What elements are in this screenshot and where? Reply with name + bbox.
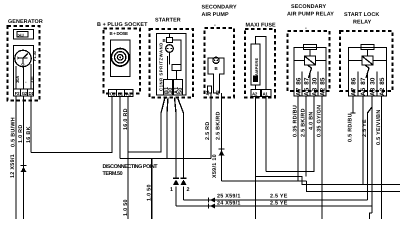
svg-text:1: 1 (170, 187, 173, 193)
svg-text:A5: A5 (360, 87, 367, 96)
svg-text:A3: A3 (370, 87, 377, 96)
svg-text:30: 30 (370, 77, 377, 85)
svg-text:STARTER: STARTER (155, 18, 181, 24)
air pump A1 leg (208, 86, 212, 93)
voltage regulator box (14, 30, 34, 40)
wire generator B+ 16 BK (30, 96, 32, 153)
svg-text:2.5 YE: 2.5 YE (270, 200, 288, 206)
svg-text:16 BK: 16 BK (26, 126, 32, 143)
svg-text:0.35 RD/BU: 0.35 RD/BU (293, 105, 299, 137)
relay coil (304, 45, 317, 50)
svg-text:AMPERE: AMPERE (254, 57, 259, 76)
starter terminal 30 funnel wires (161, 98, 165, 114)
generator dashed box (8, 26, 40, 101)
svg-text:2.5 YE: 2.5 YE (270, 194, 288, 200)
terminal 50 wire to bottom (151, 159, 153, 220)
svg-text:GENERATOR: GENERATOR (8, 19, 43, 25)
wire maxi fuse A1 down (265, 97, 267, 172)
svg-text:87: 87 (303, 77, 310, 85)
starter motor circle (166, 45, 174, 53)
run to right edge lower (307, 181, 400, 192)
wire B1 down to horizontal run (119, 97, 121, 159)
starter solenoid (169, 34, 171, 38)
relay crossbar (349, 60, 387, 62)
horizontal run B1 to air pump A1 (120, 158, 211, 160)
wire A1 branch to starter 30 (128, 113, 161, 152)
svg-text:X59/1 10: X59/1 10 (212, 154, 218, 178)
svg-text:50: 50 (178, 87, 184, 94)
svg-text:1.0 50: 1.0 50 (146, 184, 152, 201)
wire air relay 86 down (297, 96, 299, 182)
fuse body (251, 44, 260, 85)
svg-text:85: 85 (379, 77, 386, 85)
svg-text:B1: B1 (118, 92, 124, 97)
svg-text:2.5 BK/RD: 2.5 BK/RD (301, 108, 307, 137)
starter terminal cells (164, 80, 173, 96)
wire air relay 87 down (305, 96, 307, 177)
svg-text:G2: G2 (22, 91, 28, 96)
run maxi A1 to air relay 30 (266, 96, 314, 172)
svg-text:2: 2 (187, 187, 190, 193)
generator terminal row (14, 89, 34, 96)
wire maxi fuse A2 down to bottom edge (255, 97, 257, 220)
wire air relay 85 to bottom edge (321, 96, 323, 219)
svg-text:START LOCK: START LOCK (344, 12, 379, 18)
svg-text:0.5 YE/VI/BN: 0.5 YE/VI/BN (376, 109, 382, 145)
wire generator terminal 2 to bottom edge (23, 96, 25, 219)
relay crossbar (294, 60, 326, 62)
wire air pump A2 down (221, 93, 223, 181)
svg-text:A2: A2 (252, 91, 258, 96)
fuse loop wire (256, 37, 267, 90)
wire air pump A1 down to horizontal run (210, 93, 212, 159)
svg-text:2.5 YE: 2.5 YE (362, 119, 368, 137)
svg-text:C1: C1 (110, 92, 116, 97)
generator symbol circle (15, 50, 31, 66)
wire start relay 30 down to bottom edge (371, 96, 373, 213)
svg-text:AIR PUMP RELAY: AIR PUMP RELAY (287, 12, 334, 18)
starter internal wiring (173, 40, 182, 65)
svg-text:24 X59/1: 24 X59/1 (217, 200, 241, 206)
svg-text:MAXI FUSE: MAXI FUSE (246, 23, 277, 29)
wire A2 runs right (222, 180, 307, 182)
wire generator B+ to B+ socket C1 (31, 97, 112, 153)
svg-text:87: 87 (360, 77, 367, 85)
svg-text:85: 85 (319, 77, 326, 85)
air relay terminal cells (301, 72, 303, 97)
svg-text:RELAY: RELAY (353, 20, 372, 26)
svg-text:SECONDARY: SECONDARY (202, 5, 237, 11)
svg-text:>U: >U (18, 33, 25, 39)
relay switch (308, 65, 312, 78)
wire start relay 87 down to right-edge run (362, 96, 364, 185)
svg-text:B: B (163, 38, 166, 43)
svg-text:1.0 RD: 1.0 RD (18, 124, 24, 143)
wire A1 down to bottom edge (127, 97, 129, 220)
svg-text:2.5 RD: 2.5 RD (205, 121, 211, 140)
svg-text:30A: 30A (15, 76, 20, 83)
svg-text:A2: A2 (319, 87, 326, 96)
svg-text:TERM.50: TERM.50 (103, 171, 123, 177)
svg-text:B: B (215, 66, 218, 71)
maxi fuse dashed box (245, 29, 275, 98)
24 X59/1 wire (176, 205, 372, 207)
wire generator terminal 1 to bottom edge (15, 96, 17, 219)
relay switch (365, 65, 369, 78)
svg-text:0.35 GY/GN: 0.35 GY/GN (317, 105, 323, 137)
svg-text:A1: A1 (126, 92, 132, 97)
relay diode box (362, 56, 373, 65)
svg-text:C1NR SPRITZWAND: C1NR SPRITZWAND (158, 42, 163, 91)
start relay inner box (349, 48, 387, 97)
svg-text:B + PLUG SOCKET: B + PLUG SOCKET (97, 22, 148, 28)
starter terminal 50 funnel wires (175, 98, 177, 178)
relay diode box (305, 56, 316, 65)
svg-text:A7: A7 (295, 87, 302, 96)
air pump relay dashed box (288, 31, 330, 91)
svg-text:25 X59/1: 25 X59/1 (217, 194, 241, 200)
svg-text:4.0 BN: 4.0 BN (309, 111, 315, 130)
svg-text:A5: A5 (303, 87, 310, 96)
air pump motor circle (213, 57, 219, 63)
wire conn2 down to 25 line (183, 187, 185, 201)
svg-text:30: 30 (311, 77, 318, 85)
svg-text:0.5 BU/WH: 0.5 BU/WH (11, 117, 17, 147)
wire air relay 30 down (313, 96, 315, 172)
svg-text:86: 86 (351, 77, 358, 85)
svg-text:F1 30: F1 30 (32, 50, 37, 61)
svg-text:B + DOSE: B + DOSE (110, 31, 129, 36)
svg-text:86: 86 (295, 77, 302, 85)
connector arrow on wire 2 (20, 165, 26, 167)
svg-text:A1: A1 (205, 90, 210, 96)
maxi fuse terminal cells (251, 90, 261, 97)
svg-text:2.5 BK/RD: 2.5 BK/RD (215, 111, 221, 140)
air pump relay inner box (294, 48, 326, 97)
starter dashed box (150, 29, 194, 98)
generator inner box (14, 46, 34, 97)
svg-text:1.0 50: 1.0 50 (123, 199, 129, 216)
air pump body (208, 58, 224, 93)
svg-text:AIR PUMP: AIR PUMP (202, 12, 229, 18)
start lock relay dashed box (340, 31, 393, 91)
socket concentric circles (111, 49, 129, 67)
start relay terminal cells (357, 72, 359, 97)
starter contact box (172, 65, 181, 71)
starter inner box (157, 34, 187, 96)
wire start relay 85 down to bottom edge (381, 96, 383, 219)
relay coil (361, 45, 374, 50)
socket body (111, 40, 131, 77)
svg-text:16.0 RD: 16.0 RD (123, 108, 129, 130)
branch maxi A2 to right edge run (256, 177, 400, 185)
svg-text:D1: D1 (29, 91, 35, 96)
B+ plug socket dashed box (104, 29, 141, 94)
generator internal wires (15, 66, 17, 89)
svg-text:A2: A2 (379, 87, 386, 96)
B+ socket terminal row (109, 90, 134, 97)
svg-text:A1: A1 (263, 91, 269, 96)
svg-text:0.5 RD/BU: 0.5 RD/BU (348, 113, 354, 142)
25 X59/1 wire (184, 199, 368, 201)
connector arrow on A2 wire (218, 148, 224, 150)
disconnect connector 2 (180, 177, 186, 179)
svg-text:12 X59/1: 12 X59/1 (10, 154, 16, 178)
svg-text:31E: 31E (29, 76, 34, 83)
svg-text:A2: A2 (215, 90, 220, 96)
svg-text:A7: A7 (351, 87, 358, 96)
svg-text:SECONDARY: SECONDARY (291, 4, 326, 10)
wire conn1 down to 24 line (175, 187, 177, 207)
svg-text:DISCONNECTING POINT: DISCONNECTING POINT (103, 164, 159, 170)
disconnect connector 1 (173, 177, 179, 179)
air pump dashed box (205, 28, 235, 98)
wire start relay 86 stub (352, 96, 354, 113)
svg-text:A3: A3 (311, 87, 318, 96)
wire 2.5 YE up to start relay 30 (368, 107, 373, 200)
